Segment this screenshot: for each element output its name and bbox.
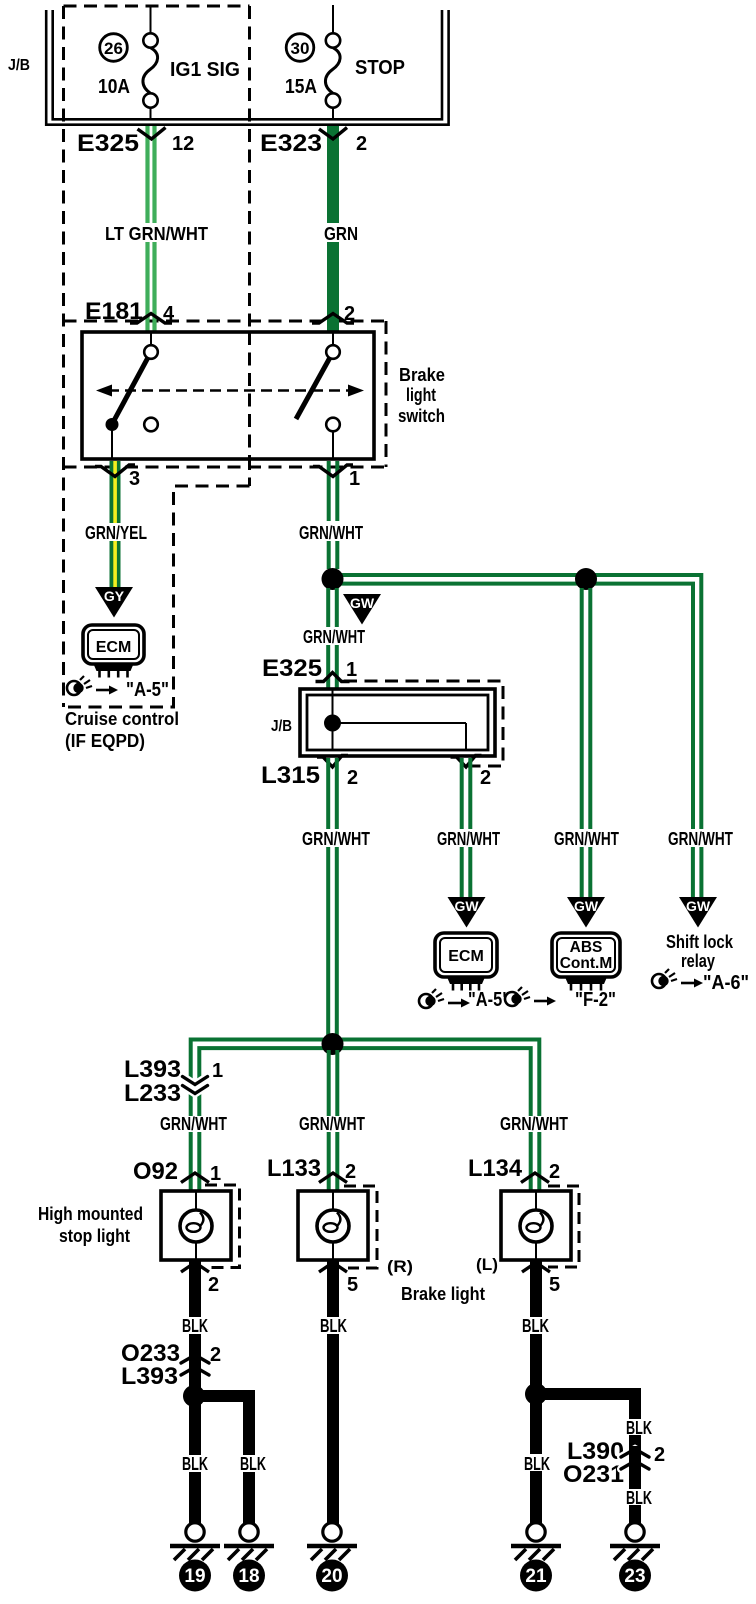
wire GRN/WHT lower horizontal run with corners (191, 1040, 540, 1076)
svg-text:GY: GY (104, 588, 125, 604)
svg-text:O92: O92 (133, 1158, 178, 1185)
junction block J/B bracket (double line) (46, 10, 448, 125)
node A junction dot (322, 568, 344, 590)
svg-text:GRN/WHT: GRN/WHT (668, 829, 733, 849)
lamp L134 brake light left (501, 1191, 571, 1260)
svg-text:12: 12 (172, 133, 194, 155)
svg-text:1: 1 (210, 1163, 221, 1185)
svg-text:GRN/WHT: GRN/WHT (160, 1114, 227, 1134)
svg-text:J/B: J/B (8, 57, 30, 74)
svg-text:Cont.M: Cont.M (560, 955, 613, 972)
wire GRN/WHT right branch to L134 (529, 1075, 533, 1116)
svg-text:BLK: BLK (182, 1454, 208, 1474)
wire color arrow GW (node A) (343, 594, 381, 625)
svg-text:BLK: BLK (182, 1316, 208, 1336)
svg-text:J/B: J/B (271, 718, 292, 735)
svg-text:23: 23 (624, 1566, 645, 1587)
svg-text:Shift lock: Shift lock (666, 932, 734, 952)
svg-text:GRN/WHT: GRN/WHT (302, 829, 370, 849)
svg-text:GRN/WHT: GRN/WHT (303, 627, 365, 647)
fuse number 30 circle (286, 34, 314, 62)
lamp L133 brake light right (298, 1191, 368, 1260)
svg-text:L233: L233 (124, 1080, 181, 1107)
svg-text:relay: relay (681, 951, 715, 971)
svg-text:Brake light: Brake light (401, 1284, 485, 1304)
dashed box: brake light switch connector (bottom) (64, 466, 387, 469)
svg-text:2: 2 (344, 303, 355, 325)
node C junction dot (322, 1033, 344, 1055)
wire GRN/WHT node B down to ABS (580, 588, 584, 829)
connector pin 3 (switch bottom left) (95, 465, 135, 477)
svg-text:19: 19 (184, 1566, 205, 1587)
svg-text:2: 2 (549, 1161, 560, 1183)
J/B internal junction dot (324, 715, 341, 732)
dashed line crossing switch (cruise region) (248, 332, 251, 459)
svg-text:2: 2 (210, 1344, 221, 1366)
svg-text:10A: 10A (98, 76, 130, 98)
svg-text:"A-5": "A-5" (126, 679, 169, 701)
wire GRN/WHT from switch pin 1 to node A (327, 461, 331, 521)
svg-text:15A: 15A (285, 76, 317, 98)
see note A-6 (652, 974, 666, 988)
svg-text:(L): (L) (476, 1255, 498, 1274)
switch motion dashed double arrow (108, 389, 352, 392)
svg-text:(R): (R) (387, 1257, 413, 1276)
lamp L133 dashed connector shadow (344, 1186, 377, 1268)
wire color arrow GW (ABS) (567, 897, 605, 928)
svg-text:5: 5 (347, 1274, 358, 1296)
node D junction dot (ground splice) (188, 1390, 255, 1402)
connector O92 pin 2 (181, 1263, 209, 1273)
svg-text:3: 3 (129, 468, 140, 490)
wire BLK right branch to L390 (629, 1400, 641, 1419)
svg-text:E181: E181 (85, 298, 143, 325)
svg-text:ECM: ECM (448, 948, 484, 965)
svg-text:ABS: ABS (570, 939, 603, 956)
junction block J/B (lower) box (300, 689, 495, 756)
dashed box: brake light switch connector (right) (385, 321, 388, 467)
svg-text:GW: GW (350, 595, 375, 611)
switch contact left (pin 4 side) (112, 332, 333, 459)
svg-text:BLK: BLK (626, 1418, 652, 1438)
svg-text:O231: O231 (563, 1461, 624, 1488)
svg-text:GRN/WHT: GRN/WHT (554, 829, 619, 849)
svg-text:E325: E325 (77, 130, 139, 157)
wire BLK to ground 18 (243, 1402, 255, 1455)
fuse 30 15A STOP (332, 5, 334, 119)
ground 23 (626, 1523, 644, 1541)
fuse number 26 circle (100, 34, 128, 62)
svg-text:4: 4 (163, 303, 175, 325)
dashed boundary: cruise-control optional region (top fuse box edge) (64, 5, 250, 8)
ABS Cont.M box (552, 933, 620, 977)
svg-text:26: 26 (104, 39, 123, 58)
connector L134 pin 5 (522, 1263, 550, 1273)
svg-text:2: 2 (654, 1444, 665, 1466)
wire color arrow GY (95, 587, 133, 618)
svg-text:LT GRN/WHT: LT GRN/WHT (105, 224, 208, 244)
brake light switch box (82, 332, 374, 459)
svg-text:5: 5 (549, 1274, 560, 1296)
wire BLK from L134 pin 5 (530, 1260, 542, 1317)
svg-text:GW: GW (574, 898, 599, 914)
ground 19 (186, 1523, 204, 1541)
wire GRN/WHT middle branch to L133 (327, 1050, 331, 1116)
see note A-5 (cruise) (67, 681, 81, 695)
see note F-2 (505, 992, 519, 1006)
svg-text:GW: GW (454, 898, 479, 914)
svg-text:"A-5": "A-5" (468, 989, 510, 1011)
svg-text:GRN/WHT: GRN/WHT (437, 829, 500, 849)
connector L315 pin 2 (right) (451, 756, 482, 768)
svg-text:21: 21 (525, 1566, 547, 1587)
fuse 26 10A IG1 SIG (150, 6, 152, 119)
wire color arrow GW (ECM) (448, 897, 486, 928)
svg-text:2: 2 (345, 1161, 356, 1183)
svg-text:High mounted: High mounted (38, 1204, 143, 1224)
wire GRN/YEL to cruise ECM (110, 461, 121, 523)
svg-text:Brake: Brake (399, 365, 445, 385)
svg-text:1: 1 (346, 659, 357, 681)
svg-text:E323: E323 (260, 130, 322, 157)
dashed boundary: cruise-control region right edge (248, 6, 251, 486)
svg-text:STOP: STOP (355, 57, 405, 79)
wire GRN/WHT node A down to E325 pin 1 (326, 588, 330, 627)
wire color arrow GW (shift lock) (679, 897, 717, 928)
svg-text:1: 1 (212, 1060, 223, 1082)
wire LT GRN/WHT from E325 pin 12 to E181 pin 4 (145, 126, 149, 223)
switch lever right (296, 358, 330, 420)
switch contact dot (pin 3) (106, 418, 119, 431)
ECM box (435, 933, 497, 977)
wire BLK to ground 21 (530, 1400, 542, 1454)
svg-text:GRN: GRN (324, 224, 358, 244)
svg-text:"F-2": "F-2" (575, 989, 616, 1011)
svg-text:18: 18 (238, 1566, 259, 1587)
lamp O92 dashed connector shadow (205, 1185, 240, 1268)
svg-text:2: 2 (208, 1274, 219, 1296)
svg-text:BLK: BLK (522, 1316, 549, 1336)
svg-text:Cruise control: Cruise control (65, 709, 179, 729)
svg-text:30: 30 (291, 39, 310, 58)
lamp O92 high mounted stop light (161, 1191, 231, 1260)
svg-text:ECM: ECM (96, 639, 132, 656)
svg-text:GW: GW (686, 898, 711, 914)
connector L133 pin 5 (319, 1263, 347, 1273)
see note A-5 (419, 994, 433, 1008)
svg-text:IG1 SIG: IG1 SIG (170, 59, 240, 81)
svg-text:BLK: BLK (320, 1316, 347, 1336)
J/B internal bus wiring (333, 690, 467, 750)
svg-text:GRN/WHT: GRN/WHT (500, 1114, 568, 1134)
wire GRN/WHT L315 right drop (to ECM) (460, 758, 464, 829)
svg-text:"A-6": "A-6" (703, 972, 749, 994)
svg-text:GRN/WHT: GRN/WHT (299, 523, 363, 543)
lamp L134 dashed connector shadow (548, 1186, 579, 1267)
ground 21 (527, 1523, 545, 1541)
svg-text:switch: switch (398, 406, 445, 426)
svg-text:20: 20 (321, 1566, 342, 1587)
connector pin 1 (switch bottom right) (313, 465, 353, 477)
svg-text:L393: L393 (121, 1363, 178, 1390)
svg-text:GRN/YEL: GRN/YEL (85, 523, 147, 543)
svg-text:2: 2 (480, 767, 491, 789)
svg-text:stop light: stop light (59, 1226, 130, 1246)
ground 18 (240, 1523, 258, 1541)
node E junction dot (ground splice) (530, 1388, 641, 1400)
connector E181 pin 2 (312, 314, 354, 324)
svg-text:(IF EQPD): (IF EQPD) (65, 731, 145, 751)
wire BLK from L133 pin 5 (327, 1260, 339, 1317)
svg-text:L134: L134 (468, 1155, 523, 1182)
junction block J/B (lower) dashed connector box (344, 681, 503, 766)
wire GRN from E323 pin 2 to E181 pin 2 (327, 126, 339, 223)
svg-text:L393: L393 (124, 1056, 181, 1083)
switch contact right (pin 2 side) (326, 345, 340, 359)
svg-text:1: 1 (349, 468, 360, 490)
dashed boundary: cruise-control region left edge (62, 6, 65, 707)
node B junction dot (ABS branch) (575, 568, 597, 590)
wire BLK to ground 19 (189, 1402, 201, 1455)
svg-text:BLK: BLK (524, 1454, 550, 1474)
svg-text:light: light (406, 385, 436, 405)
svg-text:2: 2 (356, 133, 367, 155)
wire GRN/WHT L315 left drop (to lights) (326, 758, 330, 829)
svg-text:L133: L133 (267, 1155, 321, 1182)
cruise ECM box (83, 625, 144, 664)
svg-text:BLK: BLK (240, 1454, 266, 1474)
svg-text:2: 2 (347, 767, 358, 789)
wire GRN/WHT horizontal distribution run with corner to shift-lock branch (332, 575, 701, 829)
svg-text:L315: L315 (261, 762, 320, 789)
svg-text:GRN/WHT: GRN/WHT (299, 1114, 365, 1134)
svg-text:BLK: BLK (626, 1488, 652, 1508)
wire BLK from O92 pin 2 (189, 1260, 201, 1317)
dashed box: brake light switch connector (top) (64, 320, 387, 323)
dashed boundary: cruise-control region bottom step (64, 486, 250, 707)
svg-text:E325: E325 (262, 655, 322, 682)
ground 20 (323, 1523, 341, 1541)
switch lever left (closed onto contact) (114, 358, 148, 421)
